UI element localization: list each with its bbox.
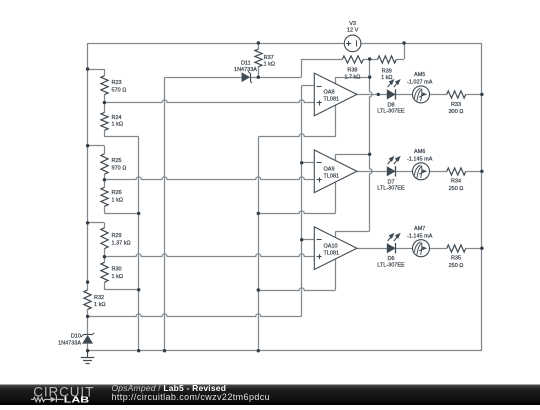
voltage source V3 <box>344 35 361 52</box>
svg-text:AM7: AM7 <box>414 226 425 232</box>
svg-text:12 V: 12 V <box>347 28 359 34</box>
svg-text:D10: D10 <box>71 333 81 339</box>
svg-text:1N4733A: 1N4733A <box>234 67 257 73</box>
LED D6 LTL-307EE <box>387 244 395 253</box>
ammeter AM7 <box>413 240 430 257</box>
wire inverting bus <box>301 86 303 317</box>
wire right rail <box>481 43 483 351</box>
svg-text:-1.145 mA: -1.145 mA <box>407 156 433 162</box>
node R25/R26 <box>103 178 106 181</box>
svg-text:D6: D6 <box>387 256 394 262</box>
wire reference row <box>88 314 302 317</box>
resistor R35 <box>447 245 466 252</box>
svg-text:R24: R24 <box>112 115 122 121</box>
svg-text:LAB: LAB <box>64 395 90 405</box>
svg-text:R39: R39 <box>382 68 392 74</box>
wire OA9 V- <box>335 182 337 213</box>
resistor R33 <box>447 91 466 98</box>
svg-text:250 Ω: 250 Ω <box>449 186 464 192</box>
wire OA10 + row <box>104 254 314 257</box>
node column B ground <box>137 349 140 352</box>
svg-text:R37: R37 <box>264 55 274 61</box>
svg-text:LTL-307EE: LTL-307EE <box>377 262 405 268</box>
node R32 top <box>86 280 89 283</box>
wire bottom rail <box>88 350 482 352</box>
svg-text:1 kΩ: 1 kΩ <box>264 61 275 67</box>
wire R24 bottom to column B <box>104 130 106 136</box>
node row2 right rail <box>480 170 483 173</box>
svg-text:AM6: AM6 <box>414 149 425 155</box>
zener diode D10 1N4733A <box>83 336 93 344</box>
node R38/R39 <box>368 57 371 60</box>
svg-text:R35: R35 <box>451 256 461 262</box>
svg-text:TL081: TL081 <box>324 250 340 256</box>
svg-text:R29: R29 <box>112 233 122 239</box>
node R26 bottom <box>137 212 140 215</box>
ammeter AM6 <box>413 163 430 180</box>
resistor R39 <box>378 56 397 63</box>
wire output row 2 <box>357 171 387 173</box>
node OA10 V- <box>257 288 260 291</box>
svg-text:1 kΩ: 1 kΩ <box>112 121 123 127</box>
svg-text:TL081: TL081 <box>324 173 340 179</box>
svg-text:1N4733A: 1N4733A <box>58 340 81 346</box>
svg-text:570 Ω: 570 Ω <box>112 87 127 93</box>
resistor R37 <box>255 49 262 67</box>
svg-text:D8: D8 <box>387 102 394 108</box>
svg-text:R34: R34 <box>451 179 461 185</box>
svg-text:TL081: TL081 <box>324 96 340 102</box>
wire R25/R26 junction column <box>104 174 106 187</box>
node R23 top <box>86 67 89 70</box>
node row1 right rail <box>480 93 483 96</box>
resistor R23 <box>101 76 108 95</box>
wire left rail <box>87 43 89 290</box>
node R29 top <box>86 221 89 224</box>
wire R38/R39 junction <box>363 59 377 61</box>
svg-text:R23: R23 <box>112 80 122 86</box>
node column D ground <box>257 349 260 352</box>
svg-text:AM5: AM5 <box>414 72 425 78</box>
svg-text:1 kΩ: 1 kΩ <box>94 302 105 308</box>
svg-text:1 kΩ: 1 kΩ <box>112 198 123 204</box>
wire R23/R24 junction column <box>104 95 106 113</box>
ammeter AM5 <box>413 86 430 103</box>
resistor R34 <box>447 168 466 175</box>
svg-text:R33: R33 <box>451 102 461 108</box>
svg-text:-1.027 mA: -1.027 mA <box>407 79 433 85</box>
node OA8 output <box>377 93 380 96</box>
op-amp OA10 TL081 <box>314 227 357 270</box>
wire OA9 V+ row <box>336 154 370 156</box>
svg-text:300 Ω: 300 Ω <box>449 109 464 115</box>
svg-text:-1.145 mA: -1.145 mA <box>407 233 433 239</box>
node OA9 V+ <box>368 153 371 156</box>
wire top rail <box>88 43 345 45</box>
wire node R25 top <box>88 145 105 147</box>
svg-text:1 kΩ: 1 kΩ <box>381 75 392 81</box>
op-amp OA8 TL081 <box>314 73 357 116</box>
wire OA10 V- <box>335 259 337 290</box>
svg-text:R38: R38 <box>347 67 357 73</box>
node R23/R24 <box>103 101 106 104</box>
wire R30 bottom <box>104 282 106 290</box>
svg-text:R30: R30 <box>112 267 122 273</box>
resistor R29 <box>101 228 108 249</box>
svg-text:OA9: OA9 <box>324 167 335 173</box>
wire Vplus rail <box>370 59 373 231</box>
svg-text:1.7 kΩ: 1.7 kΩ <box>344 74 360 80</box>
node row3 right rail <box>480 247 483 250</box>
wire column D vertical <box>258 137 260 351</box>
resistor R25 <box>101 154 108 174</box>
wire column B vertical <box>138 137 140 351</box>
node OA8 V+ <box>368 75 371 78</box>
node R39 top rail <box>402 41 405 44</box>
svg-text:1.37 kΩ: 1.37 kΩ <box>112 240 131 246</box>
logo squiggle <box>31 398 34 400</box>
zener diode D11 1N4733A <box>242 73 249 81</box>
wire R39 right to top rail <box>396 59 404 61</box>
wire OA8 V- <box>335 105 337 137</box>
wire OA10 V+ row <box>336 231 370 233</box>
svg-text:R26: R26 <box>112 190 122 196</box>
node OA10 inverting <box>300 238 303 241</box>
resistor R30 <box>101 262 108 282</box>
LED D8 LTL-307EE <box>387 90 395 99</box>
wire D11 row <box>165 77 243 79</box>
wire OA8 - stub <box>302 85 315 87</box>
node R29/R30 <box>103 255 106 258</box>
wire R29/R30 junction column <box>104 249 106 263</box>
svg-text:D7: D7 <box>387 179 394 185</box>
node column C ground <box>163 349 166 352</box>
svg-text:R32: R32 <box>94 295 104 301</box>
wire output row 3 <box>357 248 387 250</box>
wire output row 1 <box>357 94 387 96</box>
svg-text:OA8: OA8 <box>324 90 335 96</box>
node D10 bottom <box>86 349 89 352</box>
resistor R24 <box>101 112 108 130</box>
svg-text:V3: V3 <box>349 21 356 27</box>
ground <box>87 351 89 358</box>
node OA9 V- <box>257 212 260 215</box>
wire node R23 top <box>88 69 105 71</box>
wire OA10 - stub <box>302 239 315 241</box>
svg-text:D11: D11 <box>241 60 251 66</box>
resistor R38 <box>342 56 363 63</box>
svg-text:LTL-307EE: LTL-307EE <box>377 186 405 192</box>
LED D7 LTL-307EE <box>387 167 395 176</box>
svg-text:http://circuitlab.com/cwzv22tm: http://circuitlab.com/cwzv22tm6pdcu <box>112 392 271 402</box>
node R30 bottom <box>137 288 140 291</box>
svg-text:LTL-307EE: LTL-307EE <box>377 109 405 115</box>
svg-text:OA10: OA10 <box>324 243 338 249</box>
node D11/R37 <box>257 76 260 79</box>
node reference <box>86 315 89 318</box>
wire R37 leads <box>258 43 260 49</box>
wire OA9 - stub <box>302 162 315 164</box>
resistor R26 <box>101 187 108 206</box>
node R25 top <box>86 144 89 147</box>
resistor R32 <box>84 290 91 309</box>
node OA9 inverting <box>300 161 303 164</box>
wire R26 bottom <box>104 206 106 213</box>
wire OA8 + row <box>104 100 314 103</box>
svg-text:250 Ω: 250 Ω <box>449 263 464 269</box>
op-amp OA9 TL081 <box>314 150 357 193</box>
svg-text:970 Ω: 970 Ω <box>112 165 127 171</box>
svg-text:R25: R25 <box>112 158 122 164</box>
node R37 top rail <box>257 41 260 44</box>
wire OA8 V+ row <box>336 77 370 79</box>
wire node R29 top <box>88 222 105 224</box>
wire column C vertical <box>164 77 166 351</box>
wire OA9 + row <box>104 177 314 180</box>
svg-text:1 kΩ: 1 kΩ <box>112 274 123 280</box>
